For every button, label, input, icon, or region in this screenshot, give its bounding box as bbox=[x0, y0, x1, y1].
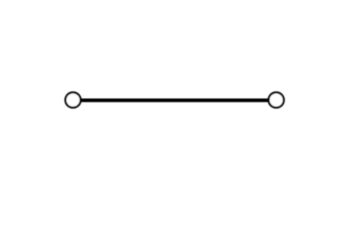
node terminal right bbox=[269, 92, 284, 107]
node terminal left bbox=[65, 92, 80, 107]
wire bbox=[80, 99, 269, 103]
